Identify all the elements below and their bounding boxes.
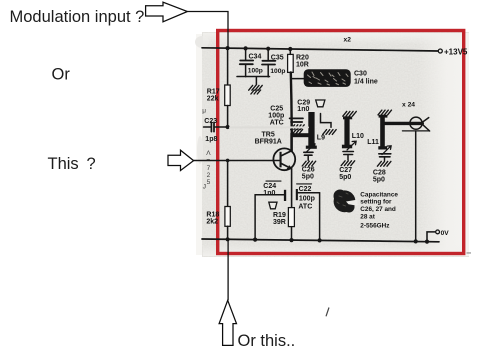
top supply rail: [202, 48, 438, 51]
svg-text:This ?: This ?: [48, 155, 96, 173]
svg-text:2: 2: [207, 172, 211, 179]
svg-text:ATC: ATC: [298, 204, 312, 211]
svg-text:+13V5: +13V5: [444, 48, 468, 57]
wire from modulation arrow: [187, 12, 228, 49]
node: R18 bottom: [226, 237, 230, 241]
red annotation rectangle: [218, 31, 464, 254]
x24 harmonic output probe: [385, 102, 430, 242]
node: C22 bottom: [318, 238, 322, 242]
svg-text:C26, 27 and: C26, 27 and: [360, 206, 396, 213]
svg-text:TR5: TR5: [262, 132, 275, 139]
svg-text:BFR91A: BFR91A: [255, 139, 282, 146]
svg-text:100p: 100p: [299, 195, 315, 202]
svg-text:0V: 0V: [441, 230, 450, 237]
base wire into TR5: [194, 160, 280, 162]
node: C34 junction: [244, 46, 248, 50]
svg-text:39R: 39R: [273, 219, 286, 226]
svg-text:7: 7: [207, 165, 211, 172]
node: 0V tap: [425, 240, 429, 244]
cut-off text left edge: [202, 108, 211, 191]
collector feed line: [291, 72, 292, 133]
node: base wire junction: [226, 159, 230, 163]
svg-text:1n0: 1n0: [263, 190, 275, 197]
bypass capacitor C25: [268, 106, 304, 134]
emitter line: [291, 169, 293, 208]
trimmer capacitor C26: [302, 144, 316, 181]
capacitor C23: [204, 118, 228, 143]
0V terminal: [427, 230, 449, 242]
resistor R17: [207, 48, 230, 127]
svg-text:100p: 100p: [248, 67, 263, 74]
svg-text:R18: R18: [206, 212, 219, 219]
resistor R19: [273, 208, 294, 241]
svg-text:1n0: 1n0: [297, 106, 309, 113]
svg-text:ATC: ATC: [270, 119, 284, 126]
wire joining C34/C35 bottoms: [237, 76, 270, 78]
node: R20 junction: [288, 47, 292, 51]
inductor stub L9: [306, 112, 325, 149]
ground below C34/C35: [249, 77, 263, 94]
node: modulation input junction: [226, 46, 230, 50]
resistor R18: [206, 160, 230, 239]
transistor TR5 BFR91A: [255, 132, 296, 171]
ink blob artifact: [334, 190, 358, 213]
or-this block arrow (up): [219, 300, 236, 345]
faint scan streak: [230, 126, 308, 128]
feedthrough cup near C29: [316, 100, 325, 107]
svg-text:1/4 line: 1/4 line: [354, 79, 378, 86]
capacitance note text: [360, 191, 398, 229]
svg-text:5: 5: [207, 179, 211, 186]
capacitor C29 label: [297, 99, 310, 113]
svg-text:μ: μ: [202, 108, 206, 115]
node: C23 junction: [226, 125, 230, 129]
svg-text:Or: Or: [52, 65, 71, 83]
trimmer capacitor C28: [373, 146, 391, 184]
inductor stub L11: [367, 110, 391, 149]
svg-text:28 at: 28 at: [360, 214, 375, 221]
svg-text:L9: L9: [317, 135, 325, 142]
svg-text:5p0: 5p0: [373, 176, 385, 183]
svg-text:2k2: 2k2: [206, 219, 218, 226]
capacitor C24: [255, 181, 286, 240]
svg-text:22k: 22k: [207, 96, 219, 103]
svg-text:L11: L11: [367, 139, 379, 146]
paper left-edge shading: [196, 34, 202, 255]
trimmer capacitor C27: [339, 141, 356, 181]
thick node joining collector line to L9: [291, 133, 310, 137]
svg-text:2-556GHz: 2-556GHz: [360, 223, 389, 230]
wire to C30: [291, 78, 304, 80]
capacitor C35: [262, 49, 285, 77]
svg-text:J: J: [203, 184, 206, 191]
+13V5 supply terminal: [438, 48, 468, 57]
node: C24 bottom: [253, 238, 257, 242]
svg-text:1p8: 1p8: [205, 136, 217, 143]
node: R19 bottom: [289, 238, 293, 242]
wire to or-this arrow: [227, 239, 229, 300]
svg-text:C30: C30: [354, 70, 367, 77]
stripline C30 (1/4 line): [304, 69, 378, 87]
svg-text:100p: 100p: [268, 112, 284, 119]
svg-text:L10: L10: [352, 133, 364, 140]
bottom ground rail: [202, 239, 439, 242]
svg-text:R17: R17: [207, 88, 220, 95]
svg-text:x2: x2: [344, 37, 352, 44]
svg-text:5p0: 5p0: [339, 174, 351, 181]
svg-text:setting for: setting for: [360, 199, 392, 206]
C29 ground hook: [321, 114, 337, 135]
small slash mark: [326, 308, 329, 317]
svg-text:C34: C34: [249, 54, 262, 61]
svg-text:100p: 100p: [270, 68, 285, 75]
node: C35 junction: [266, 47, 270, 51]
svg-text:R19: R19: [273, 212, 286, 219]
capacitor C34: [240, 48, 263, 76]
this block arrow: [168, 150, 194, 170]
svg-text:C22: C22: [299, 186, 312, 193]
svg-text:10R: 10R: [296, 61, 309, 68]
small gray dash artifact right of red corner: [467, 252, 472, 253]
inductor stub L10: [342, 111, 364, 148]
svg-text:5p0: 5p0: [302, 173, 314, 180]
svg-text:Modulation input ?: Modulation input ?: [10, 8, 145, 26]
svg-text:x 24: x 24: [402, 102, 415, 109]
svg-text:Or this..: Or this..: [238, 332, 296, 350]
svg-text:C35: C35: [271, 54, 284, 61]
svg-text:Capacitance: Capacitance: [360, 191, 398, 198]
capacitor C22: [296, 184, 320, 240]
node: probe line bottom: [414, 239, 418, 243]
feedthrough cup near R19: [269, 202, 277, 209]
scanned schematic paper background: [202, 32, 469, 257]
modulation input block arrow: [146, 2, 188, 22]
resistor R20: [288, 49, 309, 72]
